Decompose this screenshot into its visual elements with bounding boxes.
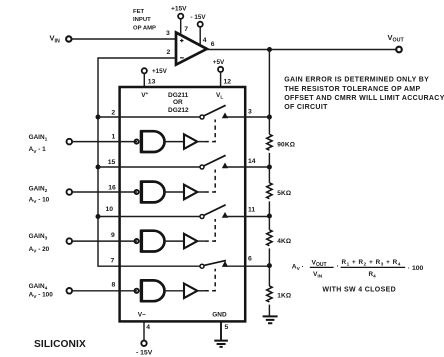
power -15V terminal bottom <box>136 341 153 357</box>
wire GAIN2 to gate <box>72 191 137 193</box>
value 90K <box>277 141 295 148</box>
pin 3 <box>248 108 252 115</box>
svg-text:6: 6 <box>248 255 252 262</box>
svg-text:5: 5 <box>225 324 229 331</box>
svg-text:7: 7 <box>184 26 188 33</box>
junction gate2 input <box>135 190 139 194</box>
svg-text:2: 2 <box>111 110 115 117</box>
pin 9 <box>111 232 115 239</box>
logo SILICONIX <box>34 339 86 350</box>
node VIN label <box>50 34 60 45</box>
pin 14 <box>248 158 256 165</box>
gate A3 <box>142 231 165 252</box>
switch SW2 <box>200 155 228 169</box>
pin 1 <box>112 134 116 141</box>
svg-text:1KΩ: 1KΩ <box>277 293 291 300</box>
wire gate3 to buffer3 <box>164 240 184 242</box>
svg-text:10: 10 <box>106 206 114 213</box>
wire row3 left <box>98 216 200 218</box>
svg-text:FET: FET <box>133 9 145 15</box>
wire control4 dashed <box>205 269 216 291</box>
wire pin13 <box>143 73 145 87</box>
wire buffer1 out <box>197 141 204 143</box>
wire pin7 <box>180 19 182 36</box>
wire row2 right <box>226 166 269 168</box>
svg-text:R1 + R2 + R3 + R4: R1 + R2 + R3 + R4 <box>342 259 401 267</box>
svg-text:12: 12 <box>224 78 232 85</box>
buffer B4 <box>184 284 197 299</box>
wire feedback from pin2 <box>98 58 200 266</box>
svg-text:90KΩ: 90KΩ <box>277 141 295 148</box>
pin 12 <box>224 78 232 85</box>
junction R bus row1 <box>267 115 272 120</box>
junction feedback row1 <box>96 115 101 120</box>
wire pin4 <box>199 27 201 46</box>
svg-text:· 100: · 100 <box>408 265 424 272</box>
terminal GAIN3 <box>67 238 73 244</box>
terminal VOUT <box>396 47 402 53</box>
svg-text:- 15V: - 15V <box>136 350 153 357</box>
wire row1 left <box>98 116 200 118</box>
pin 6 <box>211 41 215 48</box>
svg-text:DG212: DG212 <box>168 107 189 114</box>
power +5V terminal pin12 <box>213 59 225 72</box>
svg-text:4KΩ: 4KΩ <box>277 238 291 245</box>
svg-text:3: 3 <box>166 30 170 37</box>
junction gate1 input <box>135 140 139 144</box>
svg-text:16: 16 <box>108 185 116 192</box>
wire VIN to op-amp pin3 <box>72 38 176 40</box>
pin 11 <box>248 207 255 214</box>
svg-text:GND: GND <box>212 311 227 318</box>
svg-text:3: 3 <box>248 108 252 115</box>
wire buffer2 out <box>197 191 204 193</box>
pin 8 <box>112 281 116 288</box>
wire buffer3 out <box>197 240 204 242</box>
pin 7 <box>111 257 115 264</box>
svg-text:·: · <box>337 261 340 270</box>
svg-text:SILICONIX: SILICONIX <box>34 339 86 350</box>
terminal GAIN4 <box>67 288 73 294</box>
wire GAIN4 to gate <box>72 290 137 292</box>
pin 5 <box>225 324 229 331</box>
pin 6 <box>248 255 252 262</box>
wire control2 dashed <box>205 170 216 193</box>
wire gate4 to buffer4 <box>164 290 184 292</box>
wire buffer4 out <box>197 290 204 292</box>
svg-text:OF CIRCUIT: OF CIRCUIT <box>284 104 328 111</box>
pin 10 <box>106 206 114 213</box>
label DG211 OR DG212 <box>168 92 189 114</box>
buffer B1 <box>184 134 197 149</box>
node GAIN2 label <box>29 185 50 205</box>
wire control1 dashed <box>205 120 216 142</box>
wire row1 right <box>226 116 269 118</box>
wire resistor bus <box>268 50 270 317</box>
wire V- pin4 <box>143 321 145 340</box>
wire op-amp output to VOUT <box>207 49 396 51</box>
wire row3 right <box>226 216 269 218</box>
wire gate2 to buffer2 <box>164 191 184 193</box>
power +15V terminal pin13 <box>142 68 168 75</box>
terminal GAIN2 <box>67 189 73 195</box>
gate A1 <box>142 131 165 152</box>
switch SW3 <box>200 205 228 219</box>
svg-text:7: 7 <box>111 257 115 264</box>
svg-text:OR: OR <box>173 99 183 106</box>
svg-text:1: 1 <box>112 134 116 141</box>
svg-text:THE RESISTOR TOLERANCE OP AMP: THE RESISTOR TOLERANCE OP AMP <box>284 86 420 93</box>
wire row2 left <box>98 166 200 168</box>
equation gain formula <box>292 259 424 279</box>
pin 2 <box>167 49 171 56</box>
value 5K <box>277 190 291 197</box>
node GAIN3 label <box>29 233 50 255</box>
junction R bus row3 <box>267 214 272 219</box>
label FET INPUT OP AMP <box>133 9 156 32</box>
wire GND pin5 <box>220 321 222 340</box>
IC U2 DG211/DG212 body <box>120 87 246 321</box>
pin 2 <box>111 110 115 117</box>
wire pin12 <box>220 72 222 87</box>
resistor R3 4K <box>267 230 272 246</box>
svg-text:+15V: +15V <box>171 6 187 13</box>
junction R bus row4 <box>267 263 272 268</box>
junction gate3 input <box>135 239 139 243</box>
svg-text:15: 15 <box>108 159 116 166</box>
ground GND pin <box>214 341 228 347</box>
label VL <box>216 92 223 101</box>
svg-text:OFFSET AND CMRR WILL LIMIT ACC: OFFSET AND CMRR WILL LIMIT ACCURACY <box>284 95 444 102</box>
svg-text:GAIN ERROR IS DETERMINED ONLY: GAIN ERROR IS DETERMINED ONLY BY <box>284 77 429 84</box>
wire GAIN3 to gate <box>72 240 137 242</box>
power +15V terminal <box>171 6 187 19</box>
note gain error text <box>284 77 444 112</box>
junction feedback row3 <box>96 214 101 219</box>
svg-text:5KΩ: 5KΩ <box>277 190 291 197</box>
svg-text:4: 4 <box>146 324 150 331</box>
svg-text:- 15V: - 15V <box>191 14 207 21</box>
wire GAIN1 to gate <box>72 141 137 143</box>
value 1K <box>277 293 291 300</box>
svg-text:INPUT: INPUT <box>133 17 151 23</box>
label V- <box>138 311 146 318</box>
value 4K <box>277 238 291 245</box>
svg-text:2: 2 <box>167 49 171 56</box>
gate A4 <box>142 280 165 301</box>
node GAIN4 label <box>29 283 54 300</box>
wire control3 dashed <box>205 219 216 241</box>
pin 13 <box>148 79 156 86</box>
pin 3 <box>166 30 170 37</box>
gate A2 <box>142 182 165 203</box>
op-amp U1 <box>176 33 207 65</box>
svg-text:14: 14 <box>248 158 256 165</box>
svg-text:OP AMP: OP AMP <box>133 26 156 32</box>
label V+ <box>141 92 148 99</box>
svg-text:WITH SW 4 CLOSED: WITH SW 4 CLOSED <box>322 286 396 293</box>
junction output node <box>267 47 272 52</box>
pin 4 <box>146 324 150 331</box>
buffer B3 <box>184 234 197 249</box>
note with sw4 closed <box>322 286 396 293</box>
wire row4 right <box>226 265 269 267</box>
buffer B2 <box>184 185 197 200</box>
svg-text:8: 8 <box>112 281 116 288</box>
svg-text:11: 11 <box>248 207 255 214</box>
wire gate1 to buffer1 <box>164 141 184 143</box>
junction gate4 input <box>135 289 139 293</box>
junction feedback row2 <box>96 165 101 170</box>
svg-text:9: 9 <box>111 232 115 239</box>
label GND <box>212 311 227 318</box>
switch SW1 <box>200 105 228 119</box>
resistor R2 5K <box>267 183 272 199</box>
pin 15 <box>108 159 116 166</box>
terminal VIN <box>66 36 71 41</box>
svg-text:6: 6 <box>211 41 215 48</box>
ground resistor chain <box>263 316 278 323</box>
svg-text:V−: V− <box>138 311 146 318</box>
node GAIN1 label <box>29 134 48 155</box>
terminal GAIN1 <box>67 139 73 145</box>
junction R bus row2 <box>267 165 272 170</box>
pin 4 <box>203 37 207 44</box>
svg-text:DG211: DG211 <box>168 92 189 99</box>
pin 16 <box>108 185 116 192</box>
resistor R4 1K <box>267 286 272 302</box>
pin 7 <box>184 26 188 33</box>
svg-text:+5V: +5V <box>213 59 225 66</box>
svg-text:+15V: +15V <box>152 68 168 75</box>
switch SW4 <box>200 260 228 268</box>
power -15V terminal <box>191 14 207 27</box>
svg-text:4: 4 <box>203 37 207 44</box>
node VOUT label <box>388 33 405 44</box>
resistor R1 90K <box>267 134 272 150</box>
svg-text:13: 13 <box>148 79 156 86</box>
